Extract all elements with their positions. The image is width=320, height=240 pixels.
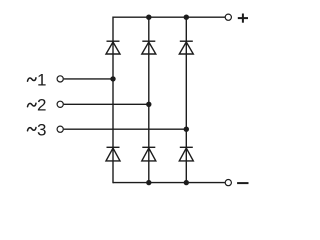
diode D3 (top, leg 2) xyxy=(142,41,156,54)
svg-text:2: 2 xyxy=(37,95,46,114)
wire leg 2 vertical xyxy=(148,17,150,182)
wire AC input 3 xyxy=(64,128,187,130)
label ~2 xyxy=(28,95,47,114)
junction node AC2/leg2 xyxy=(146,102,151,107)
terminal circle AC1 xyxy=(57,76,63,82)
diode D4 (bottom, leg 1) xyxy=(106,147,120,161)
svg-text:1: 1 xyxy=(37,71,46,90)
diode D5 (top, leg 3) xyxy=(179,41,193,54)
junction node AC1/leg1 xyxy=(110,76,115,81)
wire top bus (+ rail) xyxy=(113,16,225,18)
label ~1 xyxy=(28,71,47,90)
wire leg 3 vertical xyxy=(185,17,187,182)
junction node leg3/bottom bus xyxy=(184,180,189,185)
terminal circle + output xyxy=(225,14,231,20)
wire leg 1 vertical xyxy=(112,17,114,184)
terminal circle AC2 xyxy=(57,101,63,107)
junction node AC3/leg3 xyxy=(184,127,189,132)
terminal circle AC3 xyxy=(57,126,63,132)
svg-text:3: 3 xyxy=(37,120,46,139)
diode D6 (bottom, leg 2) xyxy=(142,147,156,161)
label - xyxy=(237,182,248,184)
terminal circle - output xyxy=(225,180,231,186)
label + xyxy=(238,14,248,23)
wire bottom bus (- rail) xyxy=(113,182,225,184)
wire AC input 2 xyxy=(64,103,149,105)
label ~3 xyxy=(28,120,47,139)
junction node leg2/top bus xyxy=(146,15,151,20)
diode D2 (bottom, leg 3) xyxy=(179,147,193,161)
junction node leg3/top bus xyxy=(184,15,189,20)
diode D1 (top, leg 1) xyxy=(106,41,120,54)
junction node leg2/bottom bus xyxy=(146,180,151,185)
wire AC input 1 xyxy=(64,78,113,80)
